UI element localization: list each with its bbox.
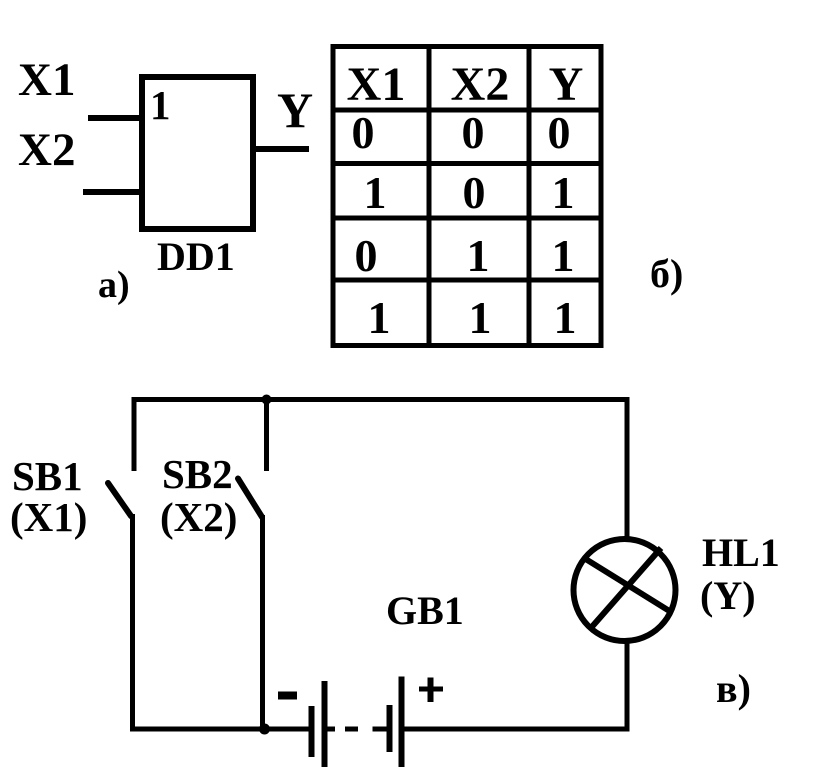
wire output Y — [253, 146, 309, 152]
svg-text:DD1: DD1 — [157, 234, 235, 279]
svg-text:(X1): (X1) — [10, 494, 87, 540]
svg-text:1: 1 — [552, 167, 575, 218]
lamp cross stroke A — [584, 558, 671, 612]
svg-text:1: 1 — [150, 82, 171, 128]
lamp HL1 circle — [574, 539, 676, 641]
polarity plus sign — [419, 687, 443, 692]
wire stub after cell1 — [327, 727, 335, 732]
svg-text:б): б) — [650, 251, 683, 296]
svg-text:X1: X1 — [18, 54, 75, 106]
svg-text:0: 0 — [462, 107, 485, 158]
wire input X2 — [83, 189, 142, 195]
svg-text:SB2: SB2 — [162, 451, 233, 497]
wire SB2 upper lead — [264, 397, 269, 471]
svg-text:1: 1 — [552, 230, 575, 281]
wire bottom rail right — [404, 727, 630, 732]
svg-text:1: 1 — [467, 230, 490, 281]
svg-text:(X2): (X2) — [160, 494, 237, 540]
wire input X1 — [88, 115, 142, 121]
wire stub before cell2 — [373, 727, 388, 732]
svg-text:X1: X1 — [347, 58, 406, 111]
svg-text:Y: Y — [549, 58, 584, 111]
battery GB1 cell2 long plate (positive) — [399, 677, 405, 767]
truth table frame — [331, 44, 603, 348]
wire top rail — [132, 397, 630, 402]
svg-text:а): а) — [98, 264, 130, 306]
svg-text:GB1: GB1 — [386, 588, 464, 633]
svg-text:0: 0 — [463, 167, 486, 218]
switch SB2 blade — [238, 479, 262, 518]
wire bottom rail left — [132, 727, 309, 732]
lamp cross stroke B — [590, 548, 661, 629]
svg-text:1: 1 — [364, 167, 387, 218]
svg-text:(Y): (Y) — [700, 573, 756, 618]
svg-text:0: 0 — [548, 107, 571, 158]
node junction top (SB2 tap) — [262, 395, 272, 405]
dashed link dash — [345, 727, 358, 732]
svg-text:1: 1 — [554, 292, 577, 343]
battery GB1 cell1 long plate — [322, 681, 328, 767]
svg-text:X2: X2 — [451, 58, 510, 111]
svg-text:1: 1 — [368, 292, 391, 343]
wire SB2 lower lead — [260, 515, 265, 732]
svg-text:0: 0 — [352, 107, 375, 158]
polarity minus sign — [278, 692, 297, 700]
wire lamp upper lead — [625, 397, 630, 540]
battery GB1 cell2 short plate — [387, 705, 393, 752]
svg-text:в): в) — [716, 666, 751, 711]
svg-text:X2: X2 — [18, 124, 75, 176]
OR gate U=DD1 body — [142, 77, 253, 229]
wire SB1 upper lead — [132, 397, 137, 471]
svg-text:0: 0 — [355, 230, 378, 281]
svg-text:Y: Y — [277, 82, 313, 138]
svg-text:SB1: SB1 — [12, 453, 83, 499]
switch SB1 blade — [108, 483, 131, 516]
battery GB1 cell1 short plate (negative) — [309, 706, 315, 757]
svg-text:HL1: HL1 — [702, 530, 780, 575]
svg-text:1: 1 — [469, 292, 492, 343]
wire SB1 lower lead — [130, 514, 135, 732]
wire lamp lower lead — [625, 640, 630, 732]
node junction bottom (SB2 to bottom rail) — [259, 724, 270, 735]
